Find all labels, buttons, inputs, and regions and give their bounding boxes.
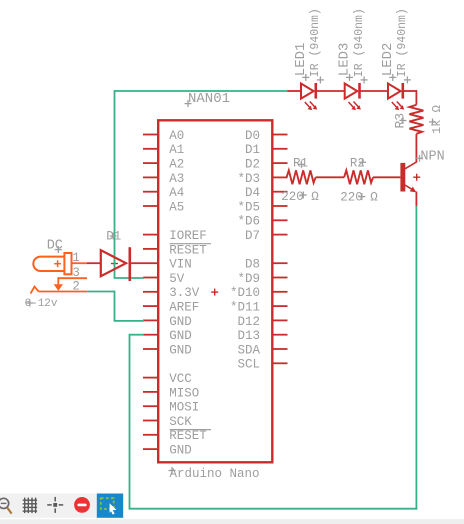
svg-text:SDA: SDA xyxy=(237,343,260,357)
svg-text:D7: D7 xyxy=(245,229,260,243)
wire: LED3-LED2 xyxy=(359,90,388,92)
svg-text:5V: 5V xyxy=(169,272,185,286)
toolbar crosshair icon xyxy=(47,497,63,513)
LED2 emission arrows xyxy=(392,102,398,109)
resistor R3 xyxy=(409,105,423,134)
R1 origin cross xyxy=(298,161,305,168)
svg-text:Arduino Nano: Arduino Nano xyxy=(170,467,260,481)
LED3 emission arrows xyxy=(349,102,355,109)
svg-text:D13: D13 xyxy=(237,329,260,343)
IC NAN01 Arduino Nano body xyxy=(158,120,272,462)
Q1 origin cross (red) xyxy=(413,174,420,181)
svg-text:RESET: RESET xyxy=(169,243,207,257)
wire: LED1-LED3 xyxy=(316,90,345,92)
svg-text:A5: A5 xyxy=(169,200,184,214)
bottom scrollbar strip xyxy=(0,519,464,524)
net: jack pin2 to GND xyxy=(87,291,114,293)
RESET overlines xyxy=(170,243,211,245)
svg-text:DC: DC xyxy=(47,239,63,254)
svg-text:*D5: *D5 xyxy=(237,200,260,214)
svg-text:GND: GND xyxy=(169,315,192,329)
R3 origin cross xyxy=(399,117,406,124)
D1 anode lead xyxy=(87,262,101,264)
NAN01 left pin names xyxy=(169,129,207,458)
resistor R1 xyxy=(287,170,316,184)
svg-text:D2: D2 xyxy=(245,158,260,172)
LED1 diode symbol xyxy=(301,83,316,99)
R2 value cross xyxy=(358,193,365,200)
transistor Q1 NPN xyxy=(400,163,405,192)
wire: D1 cathode to VIN xyxy=(130,262,143,264)
LED1 origin cross xyxy=(302,74,309,81)
toolbar select button (active) xyxy=(97,494,123,518)
svg-text:VIN: VIN xyxy=(169,258,192,272)
net: bottom horizontal xyxy=(129,508,418,510)
DC label cross xyxy=(55,246,62,253)
svg-text:GND: GND xyxy=(169,343,192,357)
svg-text:3.3V: 3.3V xyxy=(169,286,200,300)
J1 pin numbers xyxy=(72,251,80,294)
svg-text:*D10: *D10 xyxy=(230,286,260,300)
R1 value cross xyxy=(300,192,307,199)
svg-text:GND: GND xyxy=(169,329,192,343)
svg-text:A2: A2 xyxy=(169,158,184,172)
svg-text:IR (940nm): IR (940nm) xyxy=(353,8,366,77)
net: GND2 horizontal xyxy=(130,334,145,336)
J1 insertion arrow xyxy=(54,284,63,290)
NAN01 right pin names xyxy=(230,129,261,372)
LED2 origin cross xyxy=(389,74,396,81)
Q1 collector diagonal xyxy=(405,162,417,169)
toolbar zoom icon xyxy=(0,498,12,513)
svg-text:LED3: LED3 xyxy=(337,43,353,77)
R2 origin cross xyxy=(359,159,366,166)
J1 pin 3 lead xyxy=(58,277,87,279)
svg-text:SCK: SCK xyxy=(169,415,192,429)
svg-text:A1: A1 xyxy=(169,143,184,157)
svg-text:GND: GND xyxy=(169,444,192,458)
resistor R2 xyxy=(344,170,373,184)
LED1 value cross xyxy=(317,76,324,83)
NAN01 origin cross xyxy=(185,100,192,107)
svg-text:D4: D4 xyxy=(245,186,260,200)
svg-text:D12: D12 xyxy=(237,315,260,329)
net: to GND1 pin xyxy=(114,320,144,322)
svg-text:*D3: *D3 xyxy=(237,172,260,186)
wire: R1 to R2 xyxy=(316,176,345,178)
wire: LED2 to R3 corner xyxy=(402,90,417,92)
wire: corner down to R3 xyxy=(415,90,417,105)
net: jack GND vertical xyxy=(114,291,116,321)
LED1 emission arrows xyxy=(305,102,311,109)
wire: R2 to Q1 base xyxy=(373,176,400,178)
svg-text:1: 1 xyxy=(72,251,80,265)
svg-text:A4: A4 xyxy=(169,186,184,200)
toolbar background xyxy=(0,494,97,518)
NAN01 left pin stubs xyxy=(143,135,158,450)
toolbar remove icon xyxy=(74,497,90,513)
wire: R3 to Q1 collector xyxy=(415,134,417,162)
wire: LED1 anode lead xyxy=(288,90,302,92)
Q1 emitter diagonal with arrow xyxy=(405,185,414,190)
net: GND2 vertical down xyxy=(129,334,131,509)
net: to 5V pin xyxy=(114,277,144,279)
LED3 origin cross xyxy=(346,74,353,81)
D1 label cross xyxy=(110,233,117,240)
svg-text:AREF: AREF xyxy=(169,301,199,315)
J1 contact rectangle xyxy=(64,253,71,274)
svg-text:D8: D8 xyxy=(245,258,260,272)
LED2 diode symbol xyxy=(388,83,403,99)
svg-text:220 Ω: 220 Ω xyxy=(340,191,378,205)
svg-text:VCC: VCC xyxy=(169,372,192,386)
svg-text:IOREF: IOREF xyxy=(169,229,207,243)
net: 5V vertical xyxy=(114,90,116,278)
J1 pin 2 lead xyxy=(39,291,88,293)
svg-text:LED1: LED1 xyxy=(293,43,309,77)
svg-text:A0: A0 xyxy=(169,129,184,143)
svg-text:220 Ω: 220 Ω xyxy=(281,190,319,204)
NAN01 right pin stubs xyxy=(272,135,287,364)
svg-text:NAN01: NAN01 xyxy=(188,91,230,107)
net: emitter vertical xyxy=(415,206,417,510)
svg-text:MISO: MISO xyxy=(169,386,199,400)
NAN01 part origin cross (red) xyxy=(211,289,218,296)
LED2 value cross xyxy=(404,76,411,83)
svg-text:2: 2 xyxy=(72,279,80,293)
LED3 diode symbol xyxy=(345,83,360,99)
R3 value cross xyxy=(429,119,436,126)
svg-text:IR (940nm): IR (940nm) xyxy=(396,8,409,77)
J1 sleeve caret xyxy=(31,287,39,294)
svg-text:*D6: *D6 xyxy=(237,215,260,229)
wire: emitter down (red pin lead) xyxy=(415,192,417,207)
svg-text:MOSI: MOSI xyxy=(169,401,199,415)
svg-text:R1: R1 xyxy=(293,156,308,170)
connector J1 DC jack barrel xyxy=(33,257,64,271)
svg-text:NPN: NPN xyxy=(420,149,444,164)
diode D1 xyxy=(101,250,126,276)
svg-text:SCL: SCL xyxy=(237,358,260,372)
svg-text:*D11: *D11 xyxy=(230,301,260,315)
6-12v label cross xyxy=(26,300,33,307)
svg-text:LED2: LED2 xyxy=(380,43,396,77)
D1 cathode bar xyxy=(129,247,132,281)
J1 plus sign xyxy=(54,260,61,267)
svg-text:*D9: *D9 xyxy=(237,272,260,286)
diode D1 origin cross (red) xyxy=(111,260,118,267)
net: 5V to LED1 top horizontal xyxy=(115,90,288,92)
svg-text:RESET: RESET xyxy=(169,429,207,443)
svg-text:3: 3 xyxy=(72,266,80,280)
J1 pin 1 lead xyxy=(72,262,88,264)
NPN label cross xyxy=(416,155,423,162)
toolbar cursor arrow xyxy=(110,503,117,514)
svg-text:IR (940nm): IR (940nm) xyxy=(309,8,322,77)
Arduino Nano origin cross xyxy=(169,467,176,474)
wire: *D3 pin to R1 xyxy=(286,176,289,178)
svg-text:D1: D1 xyxy=(245,143,260,157)
svg-text:D0: D0 xyxy=(245,129,260,143)
LED3 value cross xyxy=(361,76,368,83)
svg-text:A3: A3 xyxy=(169,172,184,186)
J1 pin3 stem xyxy=(57,277,59,284)
toolbar grid icon xyxy=(23,498,37,513)
